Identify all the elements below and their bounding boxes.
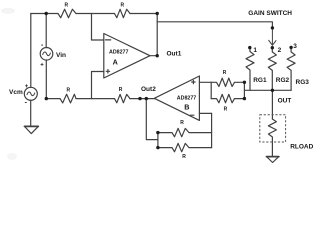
ground (below RLOAD): [267, 157, 279, 163]
wire op-amp B inverting input: [199, 112, 211, 114]
svg-text:+: +: [25, 84, 29, 90]
svg-text:-: -: [25, 100, 28, 107]
wire R2 to output node: [130, 13, 157, 15]
wire left vertical from top rail to Vcm: [30, 14, 32, 88]
node dot pair right top: [243, 81, 246, 84]
source Vin circle: [40, 48, 53, 61]
op-amp B minus sign: [190, 114, 194, 116]
resistor RG3: [287, 47, 295, 90]
source Vin sine symbol: [43, 52, 51, 56]
op-amp U1 A triangle: [104, 34, 150, 79]
resistor R (bottom left input R): [60, 94, 76, 103]
faint smudge bottom-left: [7, 153, 17, 160]
resistor R (pair bottom): [211, 94, 244, 102]
svg-text:R: R: [65, 3, 69, 9]
node dot terminal 1: [248, 46, 251, 49]
wire between R1 and R2: [76, 13, 115, 15]
svg-text:R: R: [223, 70, 227, 76]
node dot top rail / Vin: [45, 12, 48, 15]
svg-text:R: R: [119, 87, 123, 93]
node dot pair right bottom: [243, 97, 246, 100]
wire Vcm to ground: [30, 100, 32, 126]
svg-text:Out1: Out1: [167, 50, 182, 57]
svg-text:1: 1: [253, 47, 257, 54]
node dot switch pivot: [271, 26, 274, 29]
source Vcm circle: [24, 87, 37, 100]
wire op-amp B non-inverting input: [199, 81, 211, 83]
wire top rail left segment: [31, 13, 58, 15]
node dot Out2 left: [138, 97, 141, 100]
svg-text:Vin: Vin: [56, 52, 66, 59]
switch arm with arrowhead: [269, 28, 276, 46]
op-amp A minus sign: [106, 39, 111, 41]
svg-text:GAIN SWITCH: GAIN SWITCH: [248, 10, 292, 17]
wire output node vertical: [156, 14, 158, 56]
node dot Out2 right: [145, 97, 148, 100]
wire bottom rail left segment: [46, 98, 60, 100]
wire OUT down: [271, 90, 273, 119]
wire Vin top vertical: [45, 14, 47, 48]
svg-text:R: R: [67, 88, 71, 94]
resistor RLOAD: [268, 119, 276, 157]
ground (below Vcm): [25, 126, 39, 133]
op-amp U2 B triangle (mirrored): [154, 76, 199, 120]
wire between bottom resistors: [76, 98, 115, 100]
wire op-amp A output: [150, 55, 157, 57]
op-amp A plus sign: [106, 70, 109, 73]
wire Vin bottom vertical: [45, 60, 47, 99]
op-amp B plus sign: [192, 80, 195, 83]
svg-text:2: 2: [278, 47, 282, 54]
RLOAD dashed box: [260, 115, 286, 142]
wire lower loop left node: [157, 133, 159, 148]
node dot lower loop bottom: [156, 146, 159, 149]
node dot OUT junction: [271, 89, 274, 92]
svg-text:3: 3: [293, 43, 297, 50]
svg-text:RG2: RG2: [276, 77, 290, 84]
wire R to Out2 node: [130, 98, 155, 100]
node dot lower loop top: [156, 131, 159, 134]
resistor R (op-amp B input R): [115, 94, 131, 102]
resistor R1 (top input R): [58, 9, 76, 18]
svg-text:OUT: OUT: [278, 98, 292, 105]
node dot op-amp A output: [156, 54, 159, 57]
svg-text:AD8277: AD8277: [177, 95, 196, 101]
wire RG bottom bus: [244, 89, 291, 91]
wire op-amp A inverting input: [92, 14, 104, 41]
svg-text:AD8277: AD8277: [109, 50, 128, 56]
svg-text:Vcm: Vcm: [9, 89, 23, 96]
node dot terminal 2: [271, 46, 274, 49]
wire lower loop right node to B inverting input: [211, 113, 213, 147]
wire parallel pair right node: [243, 82, 245, 98]
resistor R (lower loop bottom): [158, 143, 212, 151]
source Vcm sine symbol: [27, 92, 35, 96]
svg-text:+: +: [40, 63, 44, 69]
svg-text:R: R: [182, 154, 186, 160]
resistor R2 (op-amp A feedback R): [115, 9, 131, 17]
svg-text:B: B: [184, 102, 189, 111]
svg-text:R: R: [180, 120, 184, 126]
svg-text:R: R: [121, 3, 125, 9]
svg-text:RG3: RG3: [296, 79, 310, 86]
wire feedback loop drop from Out2: [146, 99, 158, 140]
svg-text:A: A: [113, 57, 118, 66]
node dot terminal 3: [289, 46, 292, 49]
wire parallel pair left node: [210, 82, 212, 98]
resistor R (lower loop top): [158, 128, 212, 136]
svg-text:Out2: Out2: [141, 86, 156, 93]
node dot top rail right: [156, 12, 159, 15]
wire op-amp A non-inverting input: [92, 72, 104, 99]
node dot bottom rail / Vin: [45, 97, 48, 100]
svg-text:R: R: [224, 106, 228, 112]
svg-text:RG1: RG1: [253, 77, 267, 84]
resistor RG2: [268, 48, 276, 91]
resistor R (pair top): [211, 78, 244, 86]
wire Out1 to gain switch: [157, 22, 272, 28]
svg-text:RLOAD: RLOAD: [290, 144, 313, 151]
resistor RG1: [246, 48, 254, 91]
faint smudge top-left: [1, 8, 15, 14]
